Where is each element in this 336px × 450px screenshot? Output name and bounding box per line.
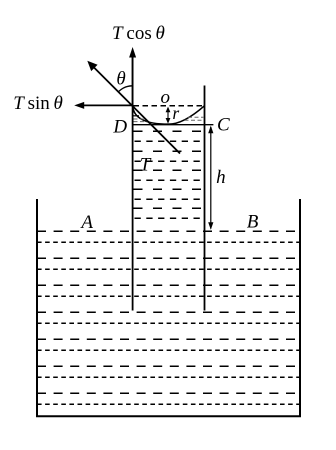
svg-text:A: A (79, 212, 93, 233)
svg-text:r: r (172, 103, 179, 123)
diagonal T line with arrow up-left (87, 61, 180, 154)
horizontal force arrow T sin theta (74, 102, 132, 109)
svg-text:B: B (247, 212, 259, 233)
svg-text:h: h (216, 167, 226, 188)
tube liquid long-dash rows (134, 131, 205, 208)
meniscus curve (133, 106, 205, 125)
gray mini dash rows near meniscus right (185, 117, 205, 120)
solid line D-C (tangent at meniscus bottom, extends to h tick) (133, 124, 214, 126)
container left wall (36, 199, 38, 417)
capillary tube right wall (204, 86, 206, 311)
tube liquid short-dash rows (135, 141, 205, 218)
container liquid short-dash rows (37, 242, 300, 404)
svg-text:T: T (140, 154, 152, 175)
theta angle arc (119, 86, 133, 92)
container bottom (36, 415, 301, 417)
dashed level line at o (134, 105, 205, 107)
r arrow (double headed) (166, 107, 171, 124)
container liquid long-dash rows (37, 231, 300, 393)
black mini dash left of meniscus (134, 115, 140, 117)
svg-text:C: C (217, 115, 230, 136)
capillary tube left wall (continues up as T cos line) (132, 56, 134, 311)
svg-text:D: D (112, 117, 127, 138)
h measurement arrow (double headed) (208, 126, 213, 230)
svg-text:θ: θ (116, 69, 125, 90)
gray mini dash rows near meniscus left (134, 119, 150, 122)
svg-text:T cos θ: T cos θ (112, 23, 165, 44)
vertical force arrow T cos theta (129, 47, 136, 106)
svg-text:T sin θ: T sin θ (13, 93, 63, 114)
svg-text:o: o (161, 87, 171, 108)
container right wall (299, 199, 301, 417)
